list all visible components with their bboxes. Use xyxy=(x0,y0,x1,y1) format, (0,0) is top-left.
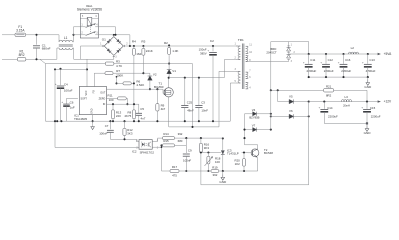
resistor R1 8R2 inrush xyxy=(17,58,26,61)
ground symbol sense xyxy=(222,171,224,174)
relay mechanical link dashed xyxy=(90,24,92,33)
trimmer R18 100 xyxy=(207,151,209,153)
svg-text:BZY85B: BZY85B xyxy=(249,116,259,120)
wire: T1 drain up xyxy=(168,78,170,88)
svg-text:2045CT: 2045CT xyxy=(266,51,277,55)
wire: R3 line drop to aux xyxy=(192,64,194,127)
svg-text:R3: R3 xyxy=(116,59,120,63)
wire: IC IN line xyxy=(107,103,139,105)
capacitor C11 2200uF xyxy=(308,53,310,55)
svg-text:ZERO: ZERO xyxy=(99,97,106,100)
resistor R16 3K3 xyxy=(200,138,202,143)
TR1 secondary winding pins 5-4 xyxy=(246,83,248,89)
svg-text:100nF: 100nF xyxy=(99,132,107,136)
wire: opto collector out xyxy=(152,141,157,143)
resistor R5 221K xyxy=(142,45,144,47)
svg-text:2200uF: 2200uF xyxy=(328,115,338,119)
svg-text:R5: R5 xyxy=(141,40,145,44)
relay contact 2 xyxy=(80,34,85,36)
wire: +5V return rail xyxy=(309,76,368,78)
wire: diagonal from N rail to R3 line xyxy=(40,59,46,63)
svg-text:C16: C16 xyxy=(345,58,351,62)
wire: feedback line from R14 xyxy=(243,137,245,139)
svg-text:IN: IN xyxy=(103,103,106,106)
svg-text:680: 680 xyxy=(178,139,183,143)
capacitor C13 4700uF xyxy=(367,53,369,55)
resistor R2 1.0K xyxy=(168,44,170,46)
wire: secondary loop top xyxy=(270,42,272,90)
wire: relay pin3 to DC rail xyxy=(99,34,130,36)
wire: bottom return rail xyxy=(201,184,309,186)
resistor R15 680 xyxy=(160,144,162,146)
bridge diodes xyxy=(107,40,110,43)
svg-text:680nF: 680nF xyxy=(42,47,51,51)
TR1 secondary winding pins 9-8 xyxy=(246,56,248,62)
svg-text:100uF: 100uF xyxy=(64,89,73,93)
svg-text:1.0K: 1.0K xyxy=(172,49,178,53)
bridge right + pin xyxy=(123,45,126,47)
svg-text:C2: C2 xyxy=(210,39,214,43)
diode V1 xyxy=(167,69,172,71)
wire: relay pin4 down xyxy=(99,26,116,28)
fuse F1 3.15A xyxy=(15,33,26,36)
svg-text:C12: C12 xyxy=(328,58,334,62)
svg-text:V4: V4 xyxy=(252,108,256,112)
capacitor C6 1uF soft-start xyxy=(67,97,78,99)
wire: +HV DC rail xyxy=(126,45,238,47)
svg-text:R19: R19 xyxy=(212,165,218,169)
svg-text:TDA4605: TDA4605 xyxy=(74,117,87,121)
wire: IC OUT to gate xyxy=(107,88,164,90)
transistor T1 BUZ90 MOSFET xyxy=(164,88,173,97)
wire: +12V line xyxy=(309,101,378,103)
svg-text:4k7: 4k7 xyxy=(161,107,166,111)
TR1 secondary winding pins 11-10 xyxy=(246,46,248,54)
svg-text:R7: R7 xyxy=(116,69,120,73)
svg-text:C7: C7 xyxy=(105,124,109,128)
resistor R17 475 xyxy=(170,170,179,173)
svg-text:R21: R21 xyxy=(326,85,332,89)
svg-text:C14: C14 xyxy=(327,106,333,110)
svg-text:OUT: OUT xyxy=(100,92,106,95)
zener V4 BZY85B xyxy=(245,113,253,115)
wire: N rail under bridge xyxy=(74,58,114,60)
svg-text:4.7K: 4.7K xyxy=(116,64,122,68)
wire: bridge left feed xyxy=(80,46,82,59)
resistor R14 392 xyxy=(158,137,163,139)
wire: V5 anode feed xyxy=(277,89,279,91)
svg-text:C11: C11 xyxy=(310,58,315,62)
svg-text:4.52K: 4.52K xyxy=(136,83,144,87)
resistor R4 162K xyxy=(133,45,135,47)
svg-text:+: + xyxy=(207,48,209,52)
node: L rail junction xyxy=(72,34,74,36)
capacitor C16 2200uF xyxy=(342,53,344,55)
opto pins xyxy=(138,141,140,143)
svg-text:220: 220 xyxy=(116,114,121,118)
svg-text:C13: C13 xyxy=(369,58,375,62)
svg-text:C9: C9 xyxy=(188,149,192,153)
svg-text:2200uF: 2200uF xyxy=(371,115,381,119)
wire: drain to transformer pin2 xyxy=(223,60,225,78)
svg-text:+12V: +12V xyxy=(384,100,392,104)
wire: rail to relay contacts xyxy=(74,34,81,36)
svg-text:R11: R11 xyxy=(108,94,113,98)
wire: VCC feed from N rail xyxy=(86,59,88,86)
vertical wire left B xyxy=(54,69,56,147)
svg-text:C4: C4 xyxy=(64,83,68,87)
node: R2 / R3 line xyxy=(168,63,170,65)
svg-text:392: 392 xyxy=(178,132,183,136)
svg-text:GND: GND xyxy=(364,85,372,89)
svg-text:VCC: VCC xyxy=(85,90,88,95)
svg-text:TL431LP: TL431LP xyxy=(227,152,239,156)
wire: long secondary vertical xyxy=(270,90,272,130)
optocoupler IC2 SFH617G2 xyxy=(139,140,152,150)
svg-text:+: + xyxy=(55,82,57,86)
svg-text:C6: C6 xyxy=(70,101,74,105)
svg-text:392: 392 xyxy=(212,173,217,177)
svg-text:R4: R4 xyxy=(132,40,136,44)
wire: primary common line xyxy=(46,120,231,122)
wire: 12V feed line xyxy=(271,89,323,91)
svg-text:GND: GND xyxy=(91,108,94,114)
wire: T1 source down to aux line xyxy=(168,97,170,127)
TR1 secondary winding pins 7-6 xyxy=(246,72,248,78)
svg-text:+: + xyxy=(362,60,364,64)
capacitor C7 100nF xyxy=(109,121,111,129)
svg-text:+: + xyxy=(338,60,340,64)
wire: drain snubber line xyxy=(169,77,225,79)
wire: pin8 to rectifier anode xyxy=(248,61,288,63)
svg-text:4n7: 4n7 xyxy=(141,116,146,120)
svg-text:100: 100 xyxy=(215,160,220,164)
svg-text:2200uF: 2200uF xyxy=(307,69,317,73)
resistor R3 4.7K startup xyxy=(46,63,106,65)
resistor R19 392 xyxy=(207,170,211,172)
wire: common line to pin5 xyxy=(229,83,231,121)
bridge left AC pin xyxy=(102,45,105,47)
svg-text:+: + xyxy=(319,105,321,109)
resistor R7 200K xyxy=(93,73,95,86)
wire: V4/V7 left vertical to T2 collector xyxy=(244,114,246,145)
svg-text:8R2: 8R2 xyxy=(326,94,332,98)
svg-text:1uF: 1uF xyxy=(70,105,75,109)
output arrow +5VA xyxy=(378,53,381,55)
wire: opto lower feed from left xyxy=(55,146,139,148)
bridge bottom - pin xyxy=(113,55,115,60)
svg-text:L2: L2 xyxy=(351,46,355,50)
svg-text:TR1: TR1 xyxy=(238,38,244,42)
svg-text:C15: C15 xyxy=(370,106,376,110)
svg-text:+: + xyxy=(303,60,305,64)
svg-text:+: + xyxy=(320,60,322,64)
resistor R12 3K3 xyxy=(124,121,126,128)
IC IC1 TDA4605 controller xyxy=(79,87,106,115)
svg-text:4700uF: 4700uF xyxy=(366,69,376,73)
wire: C14 C15 return xyxy=(324,122,367,124)
TR1 aux winding pins 3-5 xyxy=(238,71,240,83)
svg-text:BC548: BC548 xyxy=(264,151,273,155)
svg-text:R17: R17 xyxy=(172,165,178,169)
IC GND pin to ground symbol xyxy=(92,115,94,127)
svg-text:48nF: 48nF xyxy=(187,108,194,112)
resistor R20 1K2 xyxy=(243,153,245,159)
svg-text:20mH: 20mH xyxy=(343,105,350,108)
svg-text:GND: GND xyxy=(219,180,227,184)
resistor R11 100 zero-cross xyxy=(107,97,118,99)
wire: AC line input L xyxy=(2,34,15,36)
wire: T2 base xyxy=(248,152,253,154)
svg-text:IC2: IC2 xyxy=(132,150,137,154)
relay contact 1 xyxy=(80,26,85,28)
bridge rectifier G1 diamond xyxy=(104,37,123,56)
capacitor C9 100nF xyxy=(185,138,187,153)
svg-text:V5: V5 xyxy=(289,94,293,98)
svg-text:C3: C3 xyxy=(201,101,205,105)
svg-text:C25: C25 xyxy=(187,101,193,105)
ground symbol 5V xyxy=(367,77,369,79)
wire: N to choke xyxy=(26,58,57,60)
svg-text:+5VA: +5VA xyxy=(384,52,393,56)
capacitor C14 2200uF xyxy=(323,101,325,103)
svg-text:R2: R2 xyxy=(164,41,168,45)
svg-text:GND: GND xyxy=(364,131,372,135)
svg-text:V6: V6 xyxy=(289,109,293,113)
svg-text:G1: G1 xyxy=(102,38,106,42)
TR1 primary winding pins 1-2 xyxy=(236,45,238,47)
svg-text:V1: V1 xyxy=(172,69,176,73)
transistor T2 BC548 xyxy=(251,149,259,157)
resistor R21 8R2 xyxy=(324,89,334,92)
wire: C4 top line xyxy=(55,68,87,70)
relay coil xyxy=(87,18,92,26)
capacitor C15 2200uF xyxy=(366,101,368,103)
svg-text:475: 475 xyxy=(172,173,177,177)
svg-text:3K3: 3K3 xyxy=(127,132,133,136)
resistor R6 4.52K feedback xyxy=(115,82,117,84)
capacitor C3 snubber xyxy=(198,77,200,79)
svg-text:100: 100 xyxy=(109,98,114,102)
svg-text:BUZ90: BUZ90 xyxy=(154,85,164,89)
wire: V6 line xyxy=(270,115,272,117)
output arrow +12V xyxy=(378,100,381,102)
svg-text:Siemens V23056: Siemens V23056 xyxy=(77,8,102,12)
svg-text:SOFT: SOFT xyxy=(81,97,88,100)
svg-text:8R2: 8R2 xyxy=(19,53,25,57)
vertical wire left A xyxy=(45,64,47,122)
wire: L line to choke xyxy=(26,34,59,36)
svg-text:2200uF: 2200uF xyxy=(341,69,351,73)
svg-text:R15: R15 xyxy=(163,139,169,143)
resistor R9 4k7 gate pulldown xyxy=(156,88,158,90)
wire: aux line to pin3 xyxy=(169,126,219,128)
wire: +5V rail xyxy=(288,51,290,54)
relay REL1 Siemens V23056 xyxy=(80,14,98,39)
bridge top AC pin xyxy=(113,34,115,37)
svg-text:SFH617G2: SFH617G2 xyxy=(140,151,155,155)
capacitor C1 680nF X-cap xyxy=(36,35,38,45)
svg-text:100nF: 100nF xyxy=(183,159,191,163)
svg-text:385V: 385V xyxy=(200,51,207,55)
wire: opto LED feed xyxy=(135,139,137,141)
wire: V5/V6 junction vertical xyxy=(308,102,310,185)
svg-text:221K: 221K xyxy=(146,49,153,53)
svg-text:L1: L1 xyxy=(64,36,68,40)
svg-text:4K75: 4K75 xyxy=(124,114,131,118)
wire: T2 base from ref node xyxy=(244,152,248,154)
wire: T2 emitter down xyxy=(257,157,259,171)
svg-text:2200uF: 2200uF xyxy=(324,69,334,73)
svg-text:FB: FB xyxy=(92,90,95,93)
svg-text:R14: R14 xyxy=(163,132,169,136)
svg-text:+: + xyxy=(61,100,63,104)
resistor R8 4K75 xyxy=(133,103,135,105)
wire: opto emitter xyxy=(152,146,161,148)
wire: sense ground line xyxy=(162,170,170,172)
diode V7 xyxy=(245,129,253,131)
svg-text:V2: V2 xyxy=(153,72,157,76)
capacitor C12 2200uF xyxy=(325,53,327,55)
wire: TL431 ref line xyxy=(201,152,221,154)
diode V2 xyxy=(149,73,151,76)
ground symbol 12V xyxy=(366,123,368,125)
wire: R7 to R6 drop xyxy=(116,77,118,84)
capacitor C4 100uF vcc xyxy=(59,68,61,70)
capacitor C5 4n7 xyxy=(138,104,140,113)
svg-text:10nF: 10nF xyxy=(201,108,208,112)
svg-text:3.15A: 3.15A xyxy=(16,28,25,32)
svg-text:V7: V7 xyxy=(252,123,256,127)
wire: AC neutral input N xyxy=(2,58,17,60)
capacitor C25 snubber xyxy=(184,77,186,79)
resistor R13 220 xyxy=(112,104,114,110)
svg-text:+: + xyxy=(361,105,363,109)
svg-text:L3: L3 xyxy=(345,95,349,99)
svg-text:3K3: 3K3 xyxy=(204,146,210,150)
svg-text:1K2: 1K2 xyxy=(235,162,241,166)
svg-text:C5: C5 xyxy=(140,107,144,111)
